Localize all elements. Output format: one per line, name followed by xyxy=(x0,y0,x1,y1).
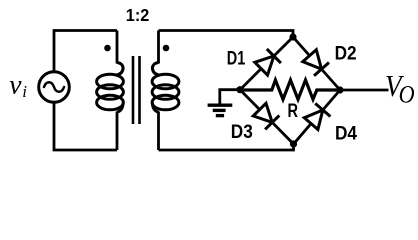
svg-text:D3: D3 xyxy=(231,121,253,143)
svg-text:D1: D1 xyxy=(227,47,246,69)
svg-text:v: v xyxy=(9,69,22,100)
diode D3 xyxy=(253,103,279,129)
svg-text:O: O xyxy=(399,82,415,109)
svg-text:i: i xyxy=(22,82,27,101)
wire secondary bottom to bridge xyxy=(159,144,294,150)
resistor R xyxy=(240,80,340,99)
source vi xyxy=(39,72,70,103)
svg-text:R: R xyxy=(288,100,299,122)
wire bridge diamond xyxy=(240,37,340,144)
wire primary loop xyxy=(54,31,117,151)
node bottom xyxy=(290,140,297,147)
svg-text:D4: D4 xyxy=(335,122,357,144)
wire primary coil lead xyxy=(116,31,119,151)
diode D1 xyxy=(255,49,281,75)
svg-text:1:2: 1:2 xyxy=(126,5,150,25)
transformer secondary winding xyxy=(152,63,160,76)
wire output xyxy=(340,89,389,92)
diode D2 xyxy=(303,50,329,76)
wire secondary coil lead xyxy=(157,31,160,151)
wire to ground xyxy=(220,90,240,105)
node top xyxy=(289,33,296,40)
polarity dot primary xyxy=(104,45,111,52)
node left xyxy=(236,86,243,93)
svg-text:D2: D2 xyxy=(335,42,357,64)
node right xyxy=(336,86,343,93)
transformer primary winding xyxy=(116,63,124,76)
ground xyxy=(208,105,233,115)
polarity dot secondary xyxy=(163,45,170,52)
transformer core xyxy=(133,56,140,124)
diode D4 xyxy=(304,103,330,129)
wire secondary top to bridge xyxy=(159,31,294,38)
